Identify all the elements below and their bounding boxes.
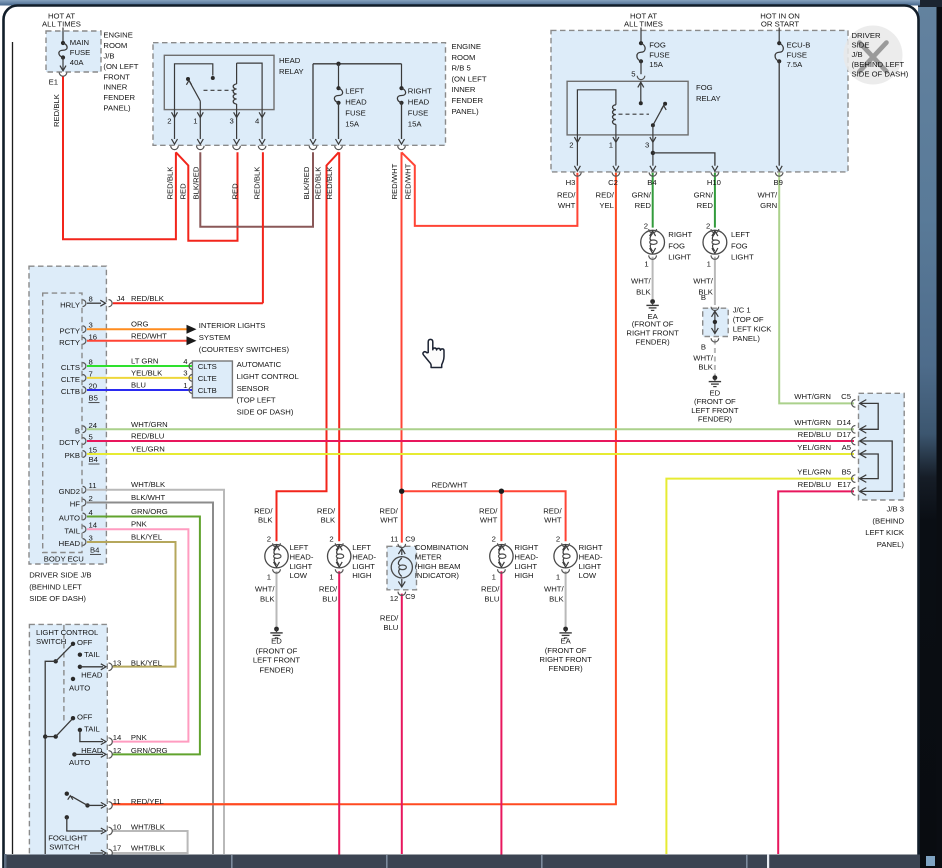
wire GRN/ORG: ECU AUTO to light control switch pin 12 <box>87 517 200 755</box>
svg-text:AUTO: AUTO <box>69 758 90 767</box>
svg-text:2: 2 <box>492 534 496 543</box>
svg-text:YEL/GRN: YEL/GRN <box>797 443 831 452</box>
wire PNK: ECU TAIL to light control switch pin 14 <box>87 529 188 741</box>
svg-text:ROOM: ROOM <box>452 53 476 62</box>
svg-text:WHT: WHT <box>480 515 498 524</box>
ground EA (front of right front fender, headlight) <box>563 627 568 632</box>
svg-text:(FRONT OF: (FRONT OF <box>632 320 674 329</box>
wire RED/BLU: J/B 3 E17 down to page bottom <box>778 491 854 854</box>
svg-text:HEAD-: HEAD- <box>290 552 314 561</box>
svg-text:WHT/BLK: WHT/BLK <box>131 844 166 853</box>
svg-text:EA: EA <box>560 637 571 646</box>
fuse: FOG FUSE 15A <box>640 28 642 44</box>
svg-text:2: 2 <box>267 534 271 543</box>
switch SW3: foglight switch contact <box>65 792 113 810</box>
wire RED/BLU: LEFT HEADLIGHT HIGH pin 1 down <box>338 571 340 854</box>
svg-text:METER: METER <box>415 552 442 561</box>
svg-text:GND2: GND2 <box>59 487 80 496</box>
svg-text:40A: 40A <box>70 58 85 67</box>
svg-text:RIGHT: RIGHT <box>408 87 432 96</box>
svg-text:LEFT: LEFT <box>290 543 309 552</box>
lamp: RIGHT HEADLIGHT LOW <box>543 507 603 604</box>
wire RED: head relay pin 2 to pin 3 link <box>176 152 238 240</box>
relay: HEAD RELAY inner box <box>164 55 274 109</box>
svg-text:RCTY: RCTY <box>59 338 80 347</box>
svg-text:CLTB: CLTB <box>198 386 217 395</box>
svg-text:YEL/GRN: YEL/GRN <box>797 467 831 476</box>
svg-text:FOGLIGHT: FOGLIGHT <box>48 834 88 843</box>
svg-text:J/B 3: J/B 3 <box>886 505 904 514</box>
svg-text:RED/BLK: RED/BLK <box>253 166 262 200</box>
wire RED/WHT: drop to combination meter pin 11 <box>401 491 403 542</box>
svg-text:LIGHT: LIGHT <box>290 562 313 571</box>
pin 2: fog relay <box>574 137 580 142</box>
svg-text:1: 1 <box>707 260 711 269</box>
wire RED/WHT: right head fuse to fog box H3 <box>402 152 578 226</box>
svg-text:HEAD: HEAD <box>408 98 430 107</box>
svg-text:PANEL): PANEL) <box>733 334 761 343</box>
junction block: ENGINE ROOM J/B (main fuse box) <box>46 31 101 72</box>
svg-text:OFF: OFF <box>77 713 93 722</box>
svg-text:GRN/ORG: GRN/ORG <box>131 746 168 755</box>
svg-text:4: 4 <box>89 508 94 517</box>
svg-text:RED/WHT: RED/WHT <box>432 480 468 489</box>
svg-text:7.5A: 7.5A <box>787 60 804 69</box>
node: fog relay pin 3 junction <box>651 151 655 155</box>
svg-text:5: 5 <box>631 70 635 79</box>
wire WHT/BLK: left fog light to J/C 1 <box>714 257 716 305</box>
switch SW2: light control rotary 2 <box>45 716 112 758</box>
wire: J/B 3 internal link D17 to E17 <box>860 441 892 491</box>
svg-text:1: 1 <box>556 573 560 582</box>
svg-text:HEAD: HEAD <box>279 56 301 65</box>
fuse: LEFT HEAD FUSE 15A <box>338 64 340 88</box>
svg-text:RED/: RED/ <box>379 507 398 516</box>
wire BLK/WHT: ECU HF down to page bottom <box>87 503 213 855</box>
svg-text:WHT/GRN: WHT/GRN <box>794 392 831 401</box>
svg-text:RED: RED <box>179 183 188 200</box>
svg-text:RELAY: RELAY <box>279 67 304 76</box>
svg-text:J/B: J/B <box>103 52 114 61</box>
pin 4: head relay <box>259 112 265 117</box>
svg-text:J/B: J/B <box>852 50 863 59</box>
svg-text:15A: 15A <box>408 120 423 129</box>
svg-text:HEAD-: HEAD- <box>579 552 603 561</box>
pin 1: head relay <box>197 112 203 117</box>
svg-text:RED/: RED/ <box>319 584 338 593</box>
svg-text:BLK: BLK <box>321 515 336 524</box>
svg-text:11: 11 <box>89 481 97 490</box>
svg-text:RED: RED <box>697 201 714 210</box>
svg-text:SWITCH: SWITCH <box>36 637 66 646</box>
svg-text:FUSE: FUSE <box>345 109 366 118</box>
svg-text:FUSE: FUSE <box>70 48 91 57</box>
sensor: AUTOMATIC LIGHT CONTROL SENSOR pins <box>183 357 217 371</box>
svg-text:D17: D17 <box>837 430 851 439</box>
svg-text:C5: C5 <box>841 392 851 401</box>
svg-text:HRLY: HRLY <box>60 300 80 309</box>
svg-text:FENDER): FENDER) <box>259 666 294 675</box>
wire RED/BLK: body ECU HRLY J4 horizontal <box>113 302 263 304</box>
svg-text:(HIGH BEAM: (HIGH BEAM <box>415 562 461 571</box>
svg-text:D14: D14 <box>837 418 852 427</box>
svg-text:J/C 1: J/C 1 <box>733 306 751 315</box>
svg-text:LEFT KICK: LEFT KICK <box>865 528 905 537</box>
svg-text:WHT/: WHT/ <box>693 353 714 362</box>
wire BLK/YEL: ECU HEAD to light control switch pin 13 <box>87 542 176 667</box>
svg-text:3: 3 <box>645 141 649 150</box>
svg-text:GRN/ORG: GRN/ORG <box>131 507 168 516</box>
svg-text:RED/WHT: RED/WHT <box>131 331 167 340</box>
svg-text:14: 14 <box>113 733 122 742</box>
svg-text:LT GRN: LT GRN <box>131 357 158 366</box>
wire RED/WHT: headlight high beam bus <box>402 491 566 541</box>
svg-text:15A: 15A <box>649 60 664 69</box>
node: switch feed junction <box>43 734 47 738</box>
svg-text:RED/: RED/ <box>481 584 500 593</box>
svg-text:GRN: GRN <box>760 201 777 210</box>
svg-text:PANEL): PANEL) <box>103 104 131 113</box>
svg-text:RED/YEL: RED/YEL <box>131 797 165 806</box>
svg-text:LEFT: LEFT <box>345 87 364 96</box>
svg-text:FOG: FOG <box>649 41 666 50</box>
arrow: interior lights system (ORG) <box>187 325 197 334</box>
wire: J/B 3 internal link A5 to B5 <box>860 454 878 479</box>
wire WHT/GRN: ECU B to J/B 3 D14 bus <box>87 428 854 430</box>
svg-text:RED/BLU: RED/BLU <box>798 430 831 439</box>
svg-text:HEAD: HEAD <box>59 539 81 548</box>
wire BLU: CLTB to light control sensor <box>87 389 192 391</box>
svg-text:FENDER): FENDER) <box>636 337 671 346</box>
wire: head fuse bus feed drop <box>312 64 314 139</box>
svg-text:2: 2 <box>167 117 171 126</box>
svg-text:BLU: BLU <box>484 595 499 604</box>
wire: head fuse bus inside R/B 5 <box>313 63 402 65</box>
svg-text:PANEL): PANEL) <box>452 107 480 116</box>
svg-text:HEAD: HEAD <box>81 671 103 680</box>
wire BLK/RED: head relay pin 1 to head fuse bus feed <box>200 152 313 227</box>
ECU: BODY ECU pins and labels <box>60 295 93 310</box>
svg-text:RED/BLK: RED/BLK <box>166 166 175 200</box>
relay K1: HEAD RELAY internals <box>175 64 213 110</box>
svg-text:BLK: BLK <box>260 595 275 604</box>
svg-text:E1: E1 <box>49 77 58 86</box>
svg-text:LIGHT: LIGHT <box>352 562 375 571</box>
svg-text:WHT/GRN: WHT/GRN <box>131 420 168 429</box>
svg-text:4: 4 <box>183 357 188 366</box>
wire: HRLY gray link to J4 <box>87 302 101 304</box>
svg-text:RED/: RED/ <box>380 613 399 622</box>
lamp: LEFT HEADLIGHT LOW <box>254 507 314 604</box>
svg-text:8: 8 <box>89 358 93 367</box>
svg-text:(ON LEFT: (ON LEFT <box>452 74 487 83</box>
svg-text:ENGINE: ENGINE <box>103 31 132 40</box>
wire WHT/BLK: RIGHT HEADLIGHT LOW to ground EA <box>565 571 567 627</box>
svg-text:INTERIOR LIGHTS: INTERIOR LIGHTS <box>199 321 266 330</box>
svg-text:B5: B5 <box>89 394 98 403</box>
svg-text:13: 13 <box>113 658 122 667</box>
svg-text:HEAD-: HEAD- <box>514 552 538 561</box>
svg-text:LIGHT: LIGHT <box>514 562 537 571</box>
svg-text:BLK/YEL: BLK/YEL <box>131 533 163 542</box>
lamp: RIGHT FOG LIGHT <box>641 230 665 254</box>
wire WHT/BLK: J/C 1 to ground ED (dashed) <box>714 340 716 376</box>
svg-text:WHT: WHT <box>558 201 576 210</box>
wire RED/YEL: horizontal overdraw for crossing order <box>112 803 310 805</box>
svg-text:YEL/GRN: YEL/GRN <box>131 445 165 454</box>
svg-text:11: 11 <box>113 797 121 806</box>
svg-text:FOG: FOG <box>731 241 748 250</box>
svg-text:SIDE OF DASH): SIDE OF DASH) <box>852 69 909 78</box>
svg-text:3: 3 <box>89 534 93 543</box>
svg-text:BLK/WHT: BLK/WHT <box>131 493 165 502</box>
svg-text:LIGHT CONTROL: LIGHT CONTROL <box>237 372 300 381</box>
wire RED/YEL: fog relay C2 to foglight switch pin 11 <box>112 173 616 805</box>
lamp: LEFT FOG LIGHT <box>703 230 727 254</box>
svg-text:WHT/: WHT/ <box>693 276 714 285</box>
svg-text:WHT/: WHT/ <box>544 584 565 593</box>
meter: COMBINATION METER HIGH BEAM INDICATOR lamp <box>379 507 468 632</box>
svg-text:PANEL): PANEL) <box>877 540 905 549</box>
wire RED/BLK: left head fuse to LEFT HEADLIGHT LOW <box>277 152 339 541</box>
svg-text:BLK/RED: BLK/RED <box>192 166 201 199</box>
svg-text:2: 2 <box>569 141 573 150</box>
svg-text:B4: B4 <box>90 546 100 555</box>
svg-text:1: 1 <box>267 573 271 582</box>
svg-text:(BEHIND LEFT: (BEHIND LEFT <box>852 60 905 69</box>
svg-text:RED/WHT: RED/WHT <box>390 163 399 199</box>
svg-text:2: 2 <box>329 534 333 543</box>
svg-text:CLTE: CLTE <box>198 374 217 383</box>
svg-text:WHT/: WHT/ <box>758 191 779 200</box>
svg-text:3: 3 <box>230 117 234 126</box>
wire RED/WHT: RCTY to interior lights system <box>87 340 187 342</box>
wire GRN/RED: fog relay H10 to LEFT FOG LIGHT <box>714 173 716 228</box>
svg-text:C9: C9 <box>405 534 415 543</box>
ground ED (front of left front fender) <box>713 375 718 380</box>
svg-text:PKB: PKB <box>65 451 80 460</box>
svg-text:B5: B5 <box>842 467 851 476</box>
svg-text:RIGHT: RIGHT <box>514 543 538 552</box>
svg-text:ORG: ORG <box>131 320 149 329</box>
svg-text:SENSOR: SENSOR <box>237 384 270 393</box>
svg-text:RED/BLK: RED/BLK <box>325 166 334 200</box>
junction connector J4 <box>109 300 113 307</box>
wire RED/BLU: RIGHT HEADLIGHT HIGH pin 1 down <box>500 571 502 854</box>
svg-text:1: 1 <box>329 573 333 582</box>
cursor: hand pointer <box>423 339 444 367</box>
svg-text:B: B <box>701 293 706 302</box>
switch SW4: foglight switch contact 2 <box>65 815 113 835</box>
svg-text:HIGH: HIGH <box>514 571 533 580</box>
svg-text:7: 7 <box>89 369 93 378</box>
svg-text:A5: A5 <box>842 443 851 452</box>
wire RED/BLK: left head fuse to LEFT HEADLIGHT HIGH <box>338 152 340 541</box>
svg-text:FUSE: FUSE <box>649 50 670 59</box>
svg-text:1: 1 <box>644 260 648 269</box>
svg-text:(FRONT OF: (FRONT OF <box>694 397 736 406</box>
svg-text:R/B 5: R/B 5 <box>452 64 471 73</box>
svg-text:LIGHT CONTROL: LIGHT CONTROL <box>36 628 99 637</box>
sensor: AUTOMATIC LIGHT CONTROL SENSOR box <box>192 361 232 398</box>
junction block: J/B 3 box <box>859 393 905 500</box>
svg-text:CLTB: CLTB <box>61 387 80 396</box>
svg-text:(FRONT OF: (FRONT OF <box>545 646 587 655</box>
wire YEL/GRN: ECU PKB to J/B 3 A5 bus <box>87 453 854 455</box>
svg-text:BLU: BLU <box>383 623 398 632</box>
wire: fog relay pin 3 to H10 <box>653 153 715 166</box>
svg-text:2: 2 <box>706 222 710 231</box>
svg-text:GRN/: GRN/ <box>632 191 652 200</box>
svg-text:LIGHT: LIGHT <box>668 253 691 262</box>
svg-text:PNK: PNK <box>131 733 148 742</box>
svg-text:WHT/: WHT/ <box>631 276 652 285</box>
relay K2: FOG RELAY internals <box>577 90 616 135</box>
svg-text:C9: C9 <box>405 592 415 601</box>
svg-text:3: 3 <box>89 321 93 330</box>
svg-text:14: 14 <box>89 521 98 530</box>
svg-text:1: 1 <box>492 573 496 582</box>
wire RED/BLK: main fuse E1 to head relay pin 2 <box>63 77 176 240</box>
svg-text:FUSE: FUSE <box>787 50 808 59</box>
fuse: MAIN FUSE 40A <box>62 28 64 44</box>
wire RED/WHT: right head fuse down to bus node <box>401 152 403 491</box>
wire YEL/BLK: CLTE to light control sensor <box>87 377 192 379</box>
svg-text:HEAD-: HEAD- <box>352 552 376 561</box>
svg-text:B4: B4 <box>647 178 657 187</box>
svg-text:FUSE: FUSE <box>408 109 429 118</box>
svg-text:ALL TIMES: ALL TIMES <box>624 19 663 28</box>
svg-text:RED/: RED/ <box>596 191 615 200</box>
svg-text:FENDER: FENDER <box>452 96 484 105</box>
wire: J/B 3 internal link C5 to D14 <box>860 403 878 429</box>
svg-text:LOW: LOW <box>290 571 308 580</box>
svg-text:BLK: BLK <box>549 595 564 604</box>
svg-text:ROOM: ROOM <box>103 41 127 50</box>
svg-text:RIGHT FRONT: RIGHT FRONT <box>626 329 679 338</box>
svg-text:CLTS: CLTS <box>198 362 217 371</box>
svg-text:ENGINE: ENGINE <box>452 42 481 51</box>
wire WHT/GRN: ECU-B fuse B9 to J/B 3 C5 <box>779 173 854 404</box>
svg-text:TAIL: TAIL <box>64 526 80 535</box>
svg-text:(COURTESY SWITCHES): (COURTESY SWITCHES) <box>199 345 290 354</box>
svg-text:FOG: FOG <box>668 241 685 250</box>
junction block J/B 3 pins <box>794 392 866 407</box>
svg-text:BLK: BLK <box>636 287 651 296</box>
svg-text:17: 17 <box>113 844 122 853</box>
arrow: interior lights system (RED/WHT) <box>187 336 197 345</box>
svg-text:SIDE OF DASH): SIDE OF DASH) <box>237 407 294 416</box>
svg-text:SIDE OF DASH): SIDE OF DASH) <box>29 594 86 603</box>
wire WHT/BLK: foglight switch pins 10-17 loop <box>112 831 188 853</box>
svg-text:FENDER: FENDER <box>103 93 135 102</box>
fuse: ECU-B FUSE 7.5A <box>778 28 780 44</box>
svg-text:TAIL: TAIL <box>84 650 100 659</box>
svg-text:1: 1 <box>609 141 613 150</box>
junction block: DRIVER SIDE J/B (body ECU outer box) <box>29 266 106 564</box>
svg-text:B4: B4 <box>89 455 99 464</box>
svg-text:RED: RED <box>231 183 240 200</box>
svg-text:2: 2 <box>89 494 93 503</box>
svg-text:2: 2 <box>556 534 560 543</box>
svg-text:HF: HF <box>70 500 81 509</box>
relay: FOG RELAY inner box <box>567 81 688 135</box>
node: head fuse bus junction <box>336 62 340 66</box>
node: high beam bus junction at right high <box>499 489 504 494</box>
svg-text:(BEHIND: (BEHIND <box>872 516 904 525</box>
svg-text:BODY ECU: BODY ECU <box>44 555 84 564</box>
svg-text:RED/: RED/ <box>557 191 576 200</box>
relay block: ENGINE ROOM R/B 5 (head relay box) <box>153 43 446 146</box>
svg-text:BLU: BLU <box>131 381 146 390</box>
fuse: RIGHT HEAD FUSE 15A <box>401 64 403 88</box>
svg-text:B: B <box>75 427 80 436</box>
svg-text:24: 24 <box>89 421 98 430</box>
svg-text:12: 12 <box>113 746 122 755</box>
svg-text:RELAY: RELAY <box>696 94 721 103</box>
svg-text:H10: H10 <box>707 178 721 187</box>
pin 3: head relay <box>234 112 240 117</box>
wire RED/BLU: ECU DCTY to J/B 3 D17 bus <box>87 440 854 442</box>
svg-text:15: 15 <box>89 446 98 455</box>
pin 3: fog relay <box>650 137 656 142</box>
svg-text:(BEHIND LEFT: (BEHIND LEFT <box>29 583 82 592</box>
bottom bar <box>4 855 920 868</box>
svg-text:BLK: BLK <box>698 363 713 372</box>
wire RED/WHT: drop to RIGHT HEADLIGHT HIGH <box>500 491 502 541</box>
svg-text:RED: RED <box>635 201 652 210</box>
svg-text:LEFT: LEFT <box>352 543 371 552</box>
svg-text:(TOP LEFT: (TOP LEFT <box>237 396 276 405</box>
svg-text:DCTY: DCTY <box>59 438 80 447</box>
wire RED/BLU: combination meter pin 12 down <box>401 594 403 854</box>
wire WHT/BLK: ECU GND2 down to page bottom <box>87 490 224 854</box>
svg-text:WHT/GRN: WHT/GRN <box>794 418 831 427</box>
svg-text:LEFT: LEFT <box>731 230 750 239</box>
svg-text:15A: 15A <box>345 120 360 129</box>
wire WHT/BLK: right fog light to ground EA <box>652 257 654 300</box>
svg-text:BLU: BLU <box>322 595 337 604</box>
svg-text:H3: H3 <box>566 178 576 187</box>
svg-text:RED/: RED/ <box>317 507 336 516</box>
svg-text:WHT: WHT <box>544 515 562 524</box>
svg-text:WHT/BLK: WHT/BLK <box>131 480 166 489</box>
svg-text:DRIVER SIDE J/B: DRIVER SIDE J/B <box>29 571 91 580</box>
svg-text:FRONT: FRONT <box>103 72 130 81</box>
svg-text:YEL: YEL <box>599 201 614 210</box>
svg-text:(TOP OF: (TOP OF <box>733 315 764 324</box>
svg-text:BLK/RED: BLK/RED <box>302 166 311 199</box>
ground ED (front of left front fender, headlight) <box>274 627 279 632</box>
junction block: DRIVER SIDE J/B (fog relay box) <box>551 30 848 172</box>
svg-text:YEL/BLK: YEL/BLK <box>131 368 163 377</box>
svg-text:WHT: WHT <box>380 515 398 524</box>
pin 2: head relay <box>172 112 178 117</box>
svg-text:SIDE: SIDE <box>852 41 870 50</box>
svg-text:C2: C2 <box>608 178 618 187</box>
svg-text:BLK/YEL: BLK/YEL <box>131 658 163 667</box>
svg-text:MAIN: MAIN <box>70 38 89 47</box>
svg-text:5: 5 <box>89 433 93 442</box>
svg-text:AUTOMATIC: AUTOMATIC <box>237 360 282 369</box>
svg-text:16: 16 <box>89 332 98 341</box>
svg-text:INDICATOR): INDICATOR) <box>415 571 460 580</box>
svg-text:1: 1 <box>183 381 187 390</box>
wire YEL/GRN: J/B 3 B5 down to page bottom <box>666 479 854 854</box>
svg-text:RED/: RED/ <box>543 507 562 516</box>
svg-text:CLTE: CLTE <box>61 375 80 384</box>
svg-text:HIGH: HIGH <box>352 571 371 580</box>
